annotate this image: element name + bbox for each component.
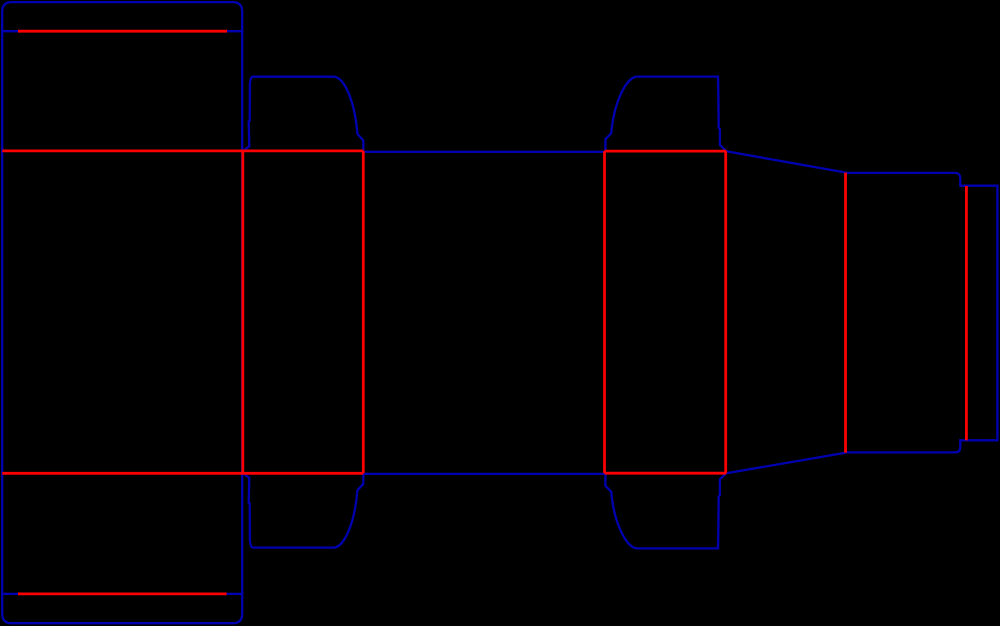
taper panel bottom slant cut (726, 453, 845, 473)
tuck panel and glue lip outline (845, 173, 997, 453)
left column outer cut outline (rounded rect) (2, 2, 242, 623)
vertical crease 2 (362, 151, 365, 473)
top tuck tick line (blue underlay) (2, 30, 242, 32)
taper panel top slant cut (726, 151, 845, 172)
vertical crease 5 (844, 173, 847, 453)
center panel top edge cut (363, 151, 604, 153)
horizontal crease top right (605, 150, 727, 153)
horizontal crease top left (2, 149, 363, 152)
top tuck crease tick (18, 30, 227, 33)
center panel bottom edge cut (363, 473, 604, 475)
vertical crease 6 (965, 186, 968, 440)
bottom dust flap 1 (243, 473, 363, 547)
top dust flap 1 (243, 77, 363, 151)
horizontal crease bottom right (604, 472, 726, 475)
bottom tuck crease tick (18, 593, 227, 596)
vertical crease 4 (724, 151, 727, 473)
horizontal crease bottom left (2, 472, 363, 475)
bottom dust flap 2 (605, 473, 726, 549)
bottom tuck tick line (blue underlay) (2, 593, 242, 595)
vertical crease 1 (241, 151, 244, 473)
vertical crease 3 (603, 151, 606, 473)
top dust flap 2 (605, 77, 726, 152)
